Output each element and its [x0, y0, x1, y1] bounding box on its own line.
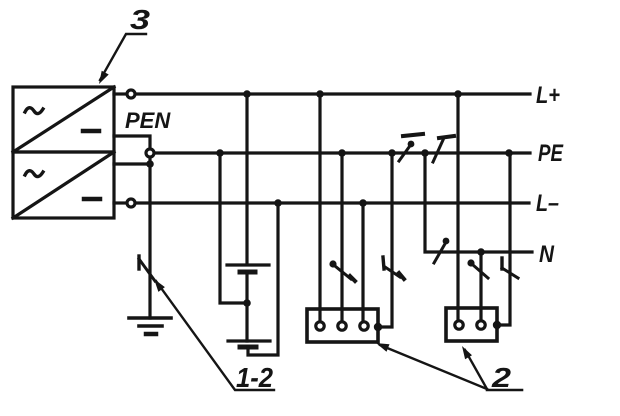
switch S5 (socket1 earth)	[383, 257, 404, 279]
label 2 arrowhead socket1	[376, 343, 390, 352]
terminal circle PEN/PE	[146, 149, 154, 157]
node L-/battery	[274, 199, 282, 207]
wire PEN stub upper	[114, 136, 150, 148]
node battery mid	[243, 299, 251, 307]
wire socket2 earth drop	[500, 153, 510, 325]
svg-text:L+: L+	[536, 82, 560, 109]
wire battery return to L-	[248, 203, 278, 355]
AC tilde symbol box 1	[25, 108, 43, 114]
node PEN junction	[146, 160, 154, 168]
wire battery feed from L+	[245, 94, 248, 263]
socket XS2 earth pin	[493, 321, 501, 329]
switch S0 (1-2 earthing switch)	[139, 256, 155, 281]
switch S3 (N link)	[434, 238, 449, 263]
socket XS1 pin 2	[338, 322, 346, 330]
node PE/battery mid	[216, 149, 224, 157]
terminal circle L+	[127, 90, 135, 98]
node PE/socket1 N	[338, 149, 346, 157]
terminal circle L-	[127, 199, 135, 207]
wire socket1 N drop	[340, 153, 343, 321]
DC minus symbol box 2	[84, 197, 100, 202]
ground symbol	[129, 318, 171, 334]
svg-text:N: N	[539, 241, 555, 268]
socket XS1 pin 1	[316, 322, 324, 330]
socket XS2 pin 2	[477, 321, 485, 329]
socket XS1 outline	[307, 309, 378, 342]
switch S1 (PE link 1)	[399, 134, 423, 161]
svg-text:3: 3	[130, 4, 151, 35]
wire L+ stub from box	[114, 92, 126, 95]
svg-text:1-2: 1-2	[236, 362, 273, 393]
label 2 leader to socket1	[380, 345, 487, 389]
label 2 underline	[487, 389, 522, 392]
switch S2 (PE link 2)	[433, 136, 454, 162]
wire PE to battery mid	[220, 153, 245, 303]
bus L-	[136, 201, 529, 204]
node PE/N-link	[421, 149, 429, 157]
node L-/socket1	[359, 199, 367, 207]
wire PEN earth drop	[148, 158, 151, 318]
label 2 leader to socket2	[465, 350, 487, 389]
socket XS2 outline	[446, 308, 497, 341]
wire socket1 earth drop	[381, 153, 392, 327]
svg-text:PE: PE	[538, 140, 564, 167]
wire socket1 L+ drop	[318, 94, 321, 321]
svg-text:L–: L–	[536, 190, 559, 217]
bus PE	[155, 151, 530, 154]
svg-text:2: 2	[491, 362, 512, 393]
label 2 arrowhead socket2	[462, 346, 472, 359]
node L+/socket1	[316, 90, 324, 98]
svg-text:PEN: PEN	[125, 108, 171, 133]
label 3 leader	[100, 34, 146, 80]
node PE/socket1 earth	[388, 149, 396, 157]
battery GB2 plates	[228, 341, 270, 347]
wire socket2 L+ drop	[456, 94, 459, 320]
socket XS1 earth pin	[374, 323, 382, 331]
bus L+	[136, 92, 530, 95]
node PE/socket2 earth	[505, 149, 513, 157]
wire N feeder from PE	[425, 153, 532, 252]
wire battery mid	[245, 272, 248, 341]
AC tilde symbol box 2	[25, 171, 43, 177]
switch S7 (socket2 earth)	[502, 258, 518, 278]
label 1-2 arrowhead	[154, 279, 165, 292]
node N/socket2	[477, 248, 485, 256]
node L+/battery	[243, 90, 251, 98]
wire socket2 N drop	[479, 252, 482, 320]
switch S6 (socket2 N)	[467, 259, 488, 278]
label 1-2 leader	[156, 281, 274, 390]
label 3 arrowhead	[99, 71, 109, 84]
socket XS2 pin 1	[455, 321, 463, 329]
converter U1 (double AC/DC rectifier box)	[13, 87, 114, 218]
wire PEN stub lower	[114, 162, 148, 165]
battery GB1 plates	[227, 265, 269, 272]
wire socket1 L- drop	[361, 203, 364, 321]
switch S4 (socket1 N)	[329, 260, 355, 281]
DC minus symbol box 1	[83, 129, 99, 134]
node L+/socket2	[454, 90, 462, 98]
socket XS1 pin 3	[360, 322, 368, 330]
wire L- stub from box	[114, 201, 126, 204]
